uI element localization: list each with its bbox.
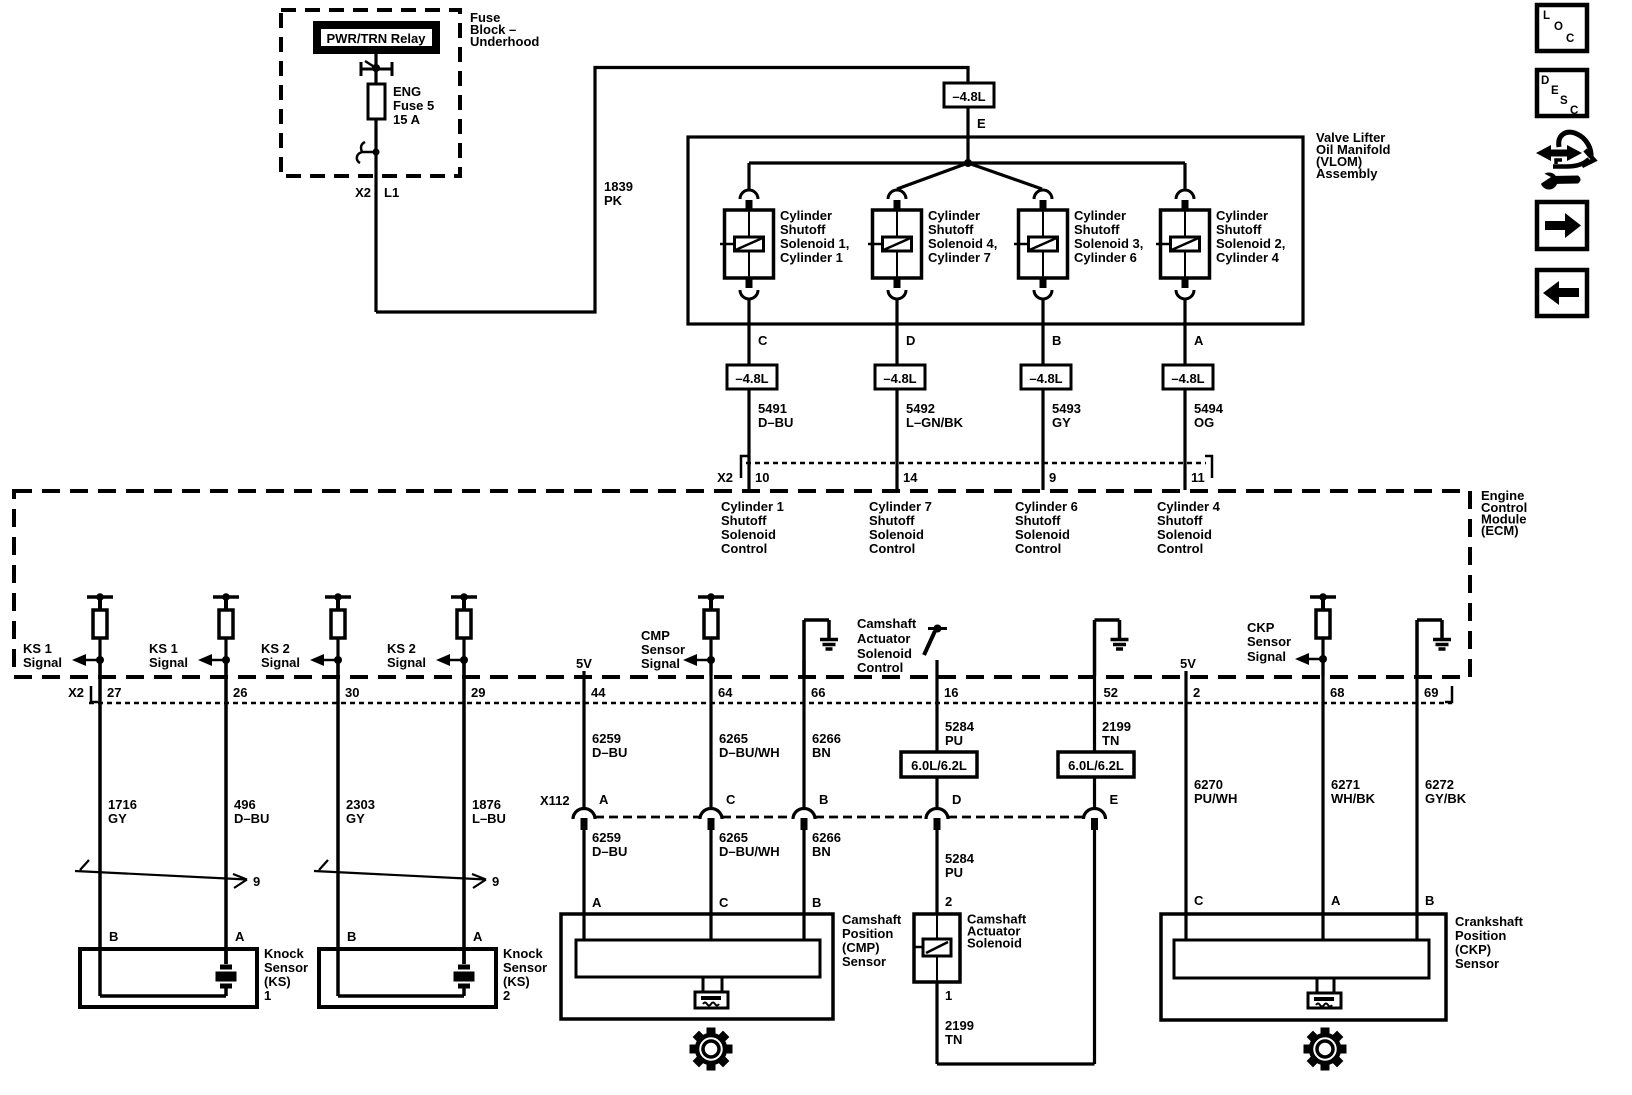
svg-text:6266: 6266: [812, 731, 841, 746]
svg-text:C: C: [719, 895, 729, 910]
svg-text:Control: Control: [1015, 541, 1061, 556]
pin B CMP: [812, 895, 821, 910]
svg-text:5491: 5491: [758, 401, 787, 416]
engine variant box -4.8L (D): [875, 365, 925, 389]
svg-text:Actuator: Actuator: [857, 631, 910, 646]
svg-text:1: 1: [945, 988, 952, 1003]
wire E into VLCM: [966, 107, 969, 163]
signal arrow CKP: [1295, 653, 1327, 665]
label Cylinder 6 Shutoff Solenoid Control: [1015, 499, 1078, 556]
wire solenoid 1 to -4.8L box: [747, 298, 750, 365]
resistor KS 2 input (pin wire 338): [325, 593, 351, 676]
svg-text:A: A: [599, 792, 609, 807]
svg-text:2199: 2199: [1102, 719, 1131, 734]
svg-text:C: C: [758, 333, 768, 348]
knock sensor KS 2 box: [319, 949, 496, 1007]
svg-text:Solenoid 3,: Solenoid 3,: [1074, 236, 1143, 251]
svg-text:2: 2: [1193, 685, 1200, 700]
svg-text:D–BU: D–BU: [592, 844, 627, 859]
solenoid: Cylinder Shutoff Solenoid 2, Cylinder 4: [1156, 190, 1210, 299]
wire 2199 TN lower: [937, 982, 1095, 1064]
svg-text:6265: 6265: [719, 731, 748, 746]
label Cylinder 1 Shutoff Solenoid Control: [721, 499, 784, 556]
svg-text:6259: 6259: [592, 830, 621, 845]
svg-text:69: 69: [1424, 685, 1438, 700]
svg-text:D–BU: D–BU: [592, 745, 627, 760]
signal arrow CMP: [683, 654, 715, 666]
svg-text:–4.8L: –4.8L: [883, 371, 916, 386]
svg-text:KS 2: KS 2: [387, 641, 416, 656]
svg-text:1: 1: [264, 988, 271, 1003]
svg-text:6265: 6265: [719, 830, 748, 845]
svg-text:B: B: [109, 929, 118, 944]
engine variant box -4.8L (B): [1021, 365, 1071, 389]
svg-text:A: A: [592, 895, 602, 910]
svg-text:GY/BK: GY/BK: [1425, 791, 1467, 806]
resistor CMP input: [698, 593, 724, 676]
relay PWR/TRN Relay: [313, 21, 440, 54]
label 5492: [906, 401, 964, 430]
label 6271: [1331, 777, 1376, 806]
svg-text:Shutoff: Shutoff: [869, 513, 915, 528]
camshaft actuator solenoid box: [913, 914, 960, 982]
svg-text:–4.8L: –4.8L: [952, 89, 985, 104]
label Engine Control Module (ECM): [1481, 488, 1527, 538]
pin B: [1052, 333, 1061, 348]
svg-text:PU: PU: [945, 865, 963, 880]
svg-text:OG: OG: [1194, 415, 1214, 430]
svg-text:Cylinder 7: Cylinder 7: [869, 499, 932, 514]
label 6265 lower: [719, 830, 780, 859]
wire 1839 PK run to VLCM feed: [376, 68, 968, 313]
svg-text:Solenoid: Solenoid: [869, 527, 924, 542]
svg-text:5284: 5284: [945, 851, 975, 866]
wire solenoid 4 to -4.8L box: [1183, 298, 1186, 365]
svg-text:Shutoff: Shutoff: [1216, 222, 1262, 237]
pins B/A KS 1: [109, 929, 245, 944]
svg-text:Signal: Signal: [261, 655, 300, 670]
icon harness arrows + wrench: [1536, 132, 1594, 189]
svg-text:Sensor: Sensor: [503, 960, 547, 975]
svg-text:Position: Position: [1455, 928, 1506, 943]
connector X112 pin E: [1084, 792, 1119, 830]
svg-text:Signal: Signal: [387, 655, 426, 670]
svg-text:D–BU/WH: D–BU/WH: [719, 745, 780, 760]
icon forward arrow: [1537, 202, 1587, 249]
label Valve Lifter Oil Manifold (VLOM) Assembly: [1316, 130, 1390, 181]
svg-text:D–BU/WH: D–BU/WH: [719, 844, 780, 859]
svg-text:Signal: Signal: [1247, 649, 1286, 664]
svg-text:Signal: Signal: [149, 655, 188, 670]
wire 5494 to ECM: [1183, 389, 1186, 490]
svg-text:5V: 5V: [576, 656, 592, 671]
svg-text:X2: X2: [68, 685, 84, 700]
svg-text:6272: 6272: [1425, 777, 1454, 792]
svg-text:2199: 2199: [945, 1018, 974, 1033]
fuse F ENG Fuse 5 15A: [368, 84, 385, 119]
engine variant box -4.8L (top): [944, 83, 994, 107]
svg-text:TN: TN: [1102, 733, 1119, 748]
svg-text:E: E: [977, 116, 986, 131]
svg-text:496: 496: [234, 797, 256, 812]
icon DESC: [1537, 70, 1587, 117]
svg-text:X2: X2: [355, 185, 371, 200]
label 6265 upper: [719, 731, 780, 760]
svg-text:5284: 5284: [945, 719, 975, 734]
svg-text:Sensor: Sensor: [1455, 956, 1499, 971]
connector X112 pin D: [926, 792, 961, 830]
label KS 1 Signal: [149, 641, 188, 670]
pin A CMP: [592, 895, 602, 910]
svg-text:52: 52: [1104, 685, 1118, 700]
svg-text:68: 68: [1330, 685, 1344, 700]
svg-text:Shutoff: Shutoff: [928, 222, 974, 237]
pin B CKP: [1425, 893, 1434, 908]
label 5284 PU lower: [945, 851, 975, 880]
svg-text:D: D: [906, 333, 915, 348]
label KS 2 Signal: [261, 641, 300, 670]
CKP sensor box: [1161, 914, 1446, 1020]
svg-text:26: 26: [233, 685, 247, 700]
CKP pedestal connector: [1308, 978, 1341, 1008]
svg-text:B: B: [819, 792, 828, 807]
svg-text:(CMP): (CMP): [842, 940, 880, 955]
svg-text:Solenoid: Solenoid: [721, 527, 776, 542]
resistor KS 2 input (pin wire 464): [451, 593, 477, 676]
svg-text:1716: 1716: [108, 797, 137, 812]
label 1876 L-BU: [472, 797, 506, 826]
svg-text:6266: 6266: [812, 830, 841, 845]
wire 6270 PU/WH: [1184, 671, 1187, 941]
label 5284 PU upper: [945, 719, 975, 748]
svg-text:Sensor: Sensor: [1247, 634, 1291, 649]
svg-text:(ECM): (ECM): [1481, 523, 1519, 538]
label Cylinder 7 Shutoff Solenoid Control: [869, 499, 932, 556]
wire 5284 PU lower: [935, 830, 938, 914]
svg-text:Cylinder: Cylinder: [1216, 208, 1268, 223]
svg-text:Camshaft: Camshaft: [857, 616, 917, 631]
CMP sensor element bar: [576, 940, 820, 977]
wire 5492 to ECM: [895, 389, 898, 490]
svg-text:L–BU: L–BU: [472, 811, 506, 826]
capacitor element KS 1: [216, 965, 237, 989]
VLOM assembly box: [688, 137, 1303, 324]
svg-text:–4.8L: –4.8L: [735, 371, 768, 386]
svg-text:Cylinder 1: Cylinder 1: [780, 250, 843, 265]
label 5493: [1052, 401, 1081, 430]
svg-text:Sensor: Sensor: [641, 642, 685, 657]
svg-text:WH/BK: WH/BK: [1331, 791, 1376, 806]
svg-text:GY: GY: [1052, 415, 1071, 430]
svg-text:2: 2: [945, 894, 952, 909]
connector X112 pin B: [793, 792, 828, 830]
svg-text:BN: BN: [812, 745, 831, 760]
svg-text:L–GN/BK: L–GN/BK: [906, 415, 964, 430]
svg-text:Solenoid: Solenoid: [967, 936, 1022, 951]
svg-text:Control: Control: [857, 660, 903, 675]
svg-text:Cylinder 1: Cylinder 1: [721, 499, 784, 514]
svg-text:6259: 6259: [592, 731, 621, 746]
signal arrow KS 1: [198, 654, 230, 666]
svg-text:A: A: [473, 929, 483, 944]
svg-text:5494: 5494: [1194, 401, 1224, 416]
svg-text:Shutoff: Shutoff: [1157, 513, 1203, 528]
svg-text:KS 1: KS 1: [149, 641, 178, 656]
signal arrow KS 2: [436, 654, 468, 666]
svg-text:14: 14: [903, 470, 918, 485]
fuse block underhood (dashed box): [281, 10, 460, 176]
label Camshaft Position (CMP) Sensor: [842, 912, 902, 969]
svg-text:Cylinder: Cylinder: [1074, 208, 1126, 223]
svg-text:A: A: [1194, 333, 1204, 348]
resistor KS 1 input (pin wire 100): [87, 593, 113, 676]
label 496 D-BU: [234, 797, 269, 826]
svg-text:9: 9: [253, 874, 260, 889]
pin 2 cam actuator: [945, 894, 952, 909]
label 2303 GY: [346, 797, 375, 826]
engine variant box 6.0L/6.2L (D): [901, 752, 977, 777]
twisted-pair mark 9: [314, 860, 499, 889]
resistor KS 1 input (pin wire 226): [213, 593, 239, 676]
label CMP Sensor Signal: [641, 628, 685, 671]
svg-text:Fuse 5: Fuse 5: [393, 98, 434, 113]
label 6266 upper: [812, 731, 841, 760]
wire 2199 TN upper (pin 52): [1093, 676, 1096, 807]
svg-text:C: C: [726, 792, 736, 807]
label solenoid 4: [1216, 208, 1285, 265]
label 6272: [1425, 777, 1467, 806]
CMP pedestal connector: [695, 977, 728, 1008]
svg-text:KS 1: KS 1: [23, 641, 52, 656]
svg-text:Shutoff: Shutoff: [1015, 513, 1061, 528]
svg-text:E: E: [1110, 792, 1119, 807]
svg-text:Sensor: Sensor: [842, 954, 886, 969]
svg-text:Cylinder 4: Cylinder 4: [1216, 250, 1280, 265]
svg-text:11: 11: [1191, 470, 1205, 485]
label 6266 lower: [812, 830, 841, 859]
svg-text:Shutoff: Shutoff: [780, 222, 826, 237]
svg-text:C: C: [1566, 33, 1574, 45]
svg-text:2: 2: [503, 988, 510, 1003]
label Camshaft Actuator Solenoid Control: [857, 616, 917, 675]
svg-text:S: S: [1560, 95, 1568, 107]
svg-text:66: 66: [811, 685, 825, 700]
pin D: [906, 333, 915, 348]
pin A: [1194, 333, 1204, 348]
label solenoid 3: [1074, 208, 1143, 265]
svg-text:D–BU: D–BU: [234, 811, 269, 826]
connector X112 pin A: [573, 792, 609, 830]
label CKP Sensor Signal: [1247, 620, 1291, 664]
label Knock Sensor (KS) 2: [503, 946, 547, 1003]
svg-text:–4.8L: –4.8L: [1029, 371, 1062, 386]
svg-text:GY: GY: [108, 811, 127, 826]
svg-text:Knock: Knock: [503, 946, 544, 961]
svg-text:TN: TN: [945, 1032, 962, 1047]
svg-text:B: B: [1052, 333, 1061, 348]
label 2199 TN upper: [1102, 719, 1131, 748]
svg-text:Cylinder 6: Cylinder 6: [1015, 499, 1078, 514]
label 6270: [1194, 777, 1237, 806]
wire 1876 L-BU (pin 29 to KS2): [462, 660, 466, 964]
label ENG Fuse 5 15 A: [393, 84, 434, 127]
svg-text:1876: 1876: [472, 797, 501, 812]
svg-text:CMP: CMP: [641, 628, 670, 643]
pin C: [758, 333, 768, 348]
svg-text:Cylinder 4: Cylinder 4: [1157, 499, 1221, 514]
svg-text:B: B: [1425, 893, 1434, 908]
svg-text:PU/WH: PU/WH: [1194, 791, 1237, 806]
signal arrow KS 2: [310, 654, 342, 666]
svg-text:9: 9: [492, 874, 499, 889]
ground (pin 69): [1417, 620, 1451, 676]
wire 6259 D&#8211;BU upper: [582, 671, 585, 807]
svg-text:Sensor: Sensor: [264, 960, 308, 975]
solenoid: Cylinder Shutoff Solenoid 3, Cylinder 6: [1014, 190, 1068, 299]
wire E to cam actuator return: [1093, 830, 1096, 1064]
gear icon CMP: [690, 1028, 733, 1071]
svg-text:5492: 5492: [906, 401, 935, 416]
svg-text:Solenoid 2,: Solenoid 2,: [1216, 236, 1285, 251]
svg-text:Solenoid 1,: Solenoid 1,: [780, 236, 849, 251]
svg-text:6270: 6270: [1194, 777, 1223, 792]
wire 6265 D&#8211;BU/WH upper: [709, 660, 712, 807]
wire 6259 lower: [582, 830, 585, 941]
wire solenoid 3 to -4.8L box: [1041, 298, 1044, 365]
ECM dashed box: [14, 491, 1470, 677]
label 2199 TN lower: [945, 1018, 974, 1047]
svg-text:CKP: CKP: [1247, 620, 1275, 635]
svg-text:PWR/TRN Relay: PWR/TRN Relay: [327, 31, 427, 46]
svg-text:15 A: 15 A: [393, 112, 421, 127]
svg-text:6.0L/6.2L: 6.0L/6.2L: [1068, 758, 1124, 773]
svg-text:Control: Control: [869, 541, 915, 556]
svg-text:44: 44: [591, 685, 606, 700]
driver glyph (pin 16): [924, 625, 947, 677]
wire 496 D-BU (pin 26 to KS1): [224, 660, 228, 964]
node X2 / L1 at fuse block exit: [355, 185, 399, 200]
svg-text:(KS): (KS): [503, 974, 530, 989]
5V supply (pin 44): [576, 656, 592, 676]
svg-text:6271: 6271: [1331, 777, 1360, 792]
pin 1: [945, 988, 952, 1003]
svg-text:29: 29: [471, 685, 485, 700]
label Camshaft Actuator Solenoid: [967, 912, 1027, 951]
pin C CKP: [1194, 893, 1204, 908]
svg-text:Position: Position: [842, 926, 893, 941]
icon back arrow: [1537, 270, 1587, 316]
svg-text:E: E: [1551, 85, 1559, 97]
wire 6265 lower: [709, 830, 712, 941]
svg-text:Shutoff: Shutoff: [721, 513, 767, 528]
ground (pin 66): [804, 620, 838, 676]
svg-text:D–BU: D–BU: [758, 415, 793, 430]
svg-text:BN: BN: [812, 844, 831, 859]
label 5491: [758, 401, 793, 430]
label KS 1 Signal: [23, 641, 62, 670]
svg-text:A: A: [235, 929, 245, 944]
wire 6272 GY/BK: [1415, 676, 1418, 941]
label solenoid 1: [780, 208, 849, 265]
icon LOC: [1537, 5, 1587, 51]
label solenoid 2: [928, 208, 997, 265]
svg-text:Knock: Knock: [264, 946, 305, 961]
svg-text:64: 64: [718, 685, 733, 700]
pin C CMP: [719, 895, 729, 910]
label 6259 upper: [592, 731, 627, 760]
engine variant box -4.8L (A): [1163, 365, 1213, 389]
wire 1716 GY (pin 27 to KS1): [98, 660, 102, 949]
svg-text:L1: L1: [384, 185, 399, 200]
engine variant box -4.8L (C): [727, 365, 777, 389]
solenoid: Cylinder Shutoff Solenoid 1, Cylinder 1: [720, 190, 774, 299]
KS 2 internal wiring: [338, 949, 464, 996]
wire 2303 GY (pin 30 to KS2): [336, 660, 340, 949]
label Crankshaft Position (CKP) Sensor: [1455, 914, 1524, 971]
connector X112 pin C: [700, 792, 736, 830]
wire 6266 lower: [802, 830, 805, 941]
svg-text:X112: X112: [540, 793, 570, 808]
pin E: [977, 116, 986, 131]
svg-text:O: O: [1554, 21, 1563, 33]
svg-text:L: L: [1543, 10, 1550, 22]
wire relay to fuse: [374, 54, 377, 84]
svg-text:ENG: ENG: [393, 84, 421, 99]
connector X2 row (ECM bottom): [68, 685, 1452, 703]
wire junction branches: [749, 163, 1185, 189]
pins B/A KS 2: [347, 929, 483, 944]
svg-text:B: B: [347, 929, 356, 944]
wire 5491 to ECM: [747, 389, 750, 490]
label 6259 lower: [592, 830, 627, 859]
svg-text:30: 30: [345, 685, 359, 700]
svg-text:Shutoff: Shutoff: [1074, 222, 1120, 237]
signal arrow KS 1: [72, 654, 104, 666]
svg-text:5493: 5493: [1052, 401, 1081, 416]
svg-text:1839: 1839: [604, 179, 633, 194]
pin A CKP: [1331, 893, 1341, 908]
5V supply (pin 2): [1180, 656, 1196, 676]
KS 1 internal wiring: [100, 949, 226, 996]
ground (pin 52): [1095, 620, 1129, 676]
wire 6271 WH/BK: [1321, 660, 1324, 941]
clip/terminal symbol on wire: [357, 142, 380, 163]
svg-text:Solenoid 4,: Solenoid 4,: [928, 236, 997, 251]
wire solenoid 2 to -4.8L box: [895, 298, 898, 365]
svg-text:5V: 5V: [1180, 656, 1196, 671]
svg-text:Signal: Signal: [641, 656, 680, 671]
svg-text:Cylinder: Cylinder: [780, 208, 832, 223]
label 1716 GY: [108, 797, 137, 826]
knock sensor KS 1 box: [80, 949, 257, 1007]
svg-text:(CKP): (CKP): [1455, 942, 1491, 957]
svg-text:D: D: [952, 792, 961, 807]
svg-text:Assembly: Assembly: [1316, 166, 1378, 181]
wire 6266 BN upper: [802, 660, 805, 807]
CKP sensor element bar: [1174, 940, 1429, 978]
resistor CKP input: [1310, 593, 1336, 676]
svg-text:Control: Control: [721, 541, 767, 556]
svg-text:Cylinder: Cylinder: [928, 208, 980, 223]
engine variant box 6.0L/6.2L (E): [1058, 752, 1134, 777]
svg-text:Cylinder 6: Cylinder 6: [1074, 250, 1137, 265]
svg-text:KS 2: KS 2: [261, 641, 290, 656]
svg-text:27: 27: [107, 685, 121, 700]
label KS 2 Signal: [387, 641, 426, 670]
svg-text:GY: GY: [346, 811, 365, 826]
label 5494: [1194, 401, 1224, 430]
svg-text:Signal: Signal: [23, 655, 62, 670]
